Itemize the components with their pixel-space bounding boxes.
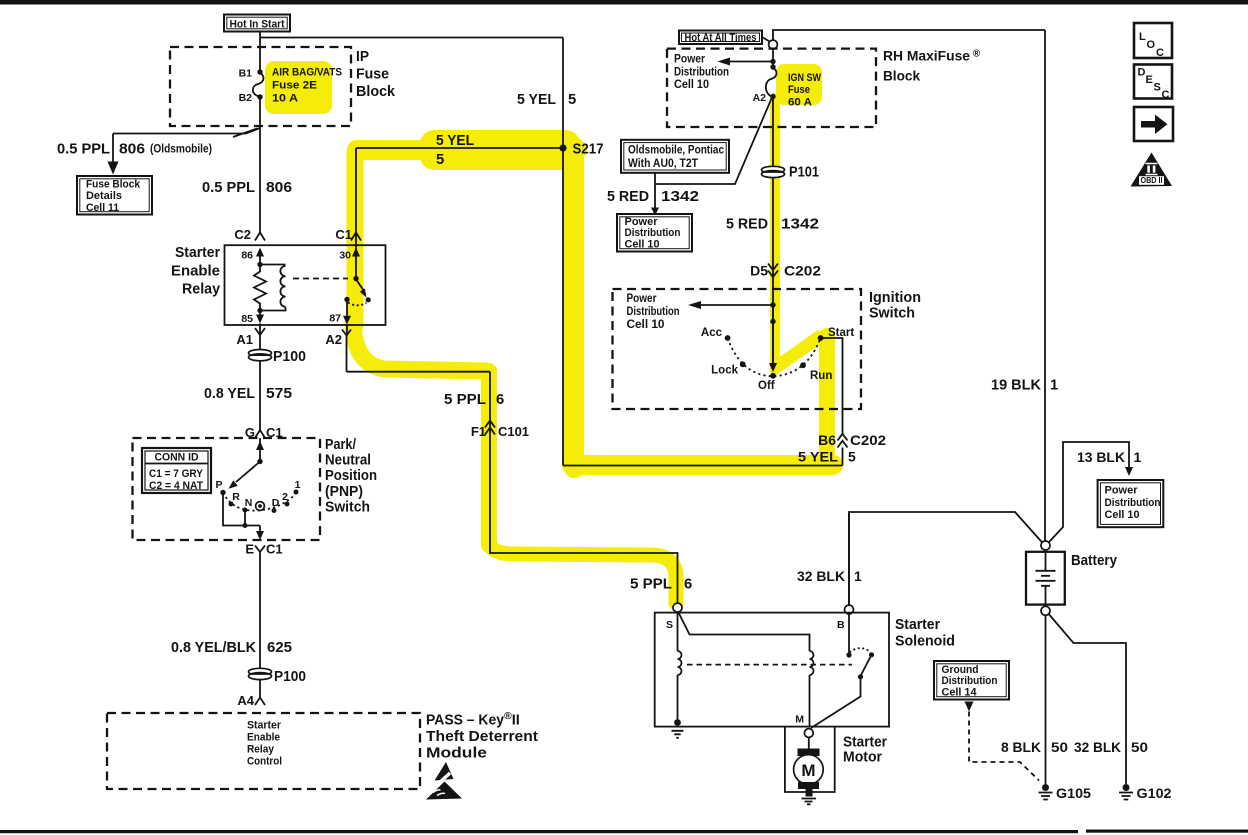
icon: DESC — [1134, 65, 1172, 102]
ESD sensitive device symbol — [423, 762, 463, 800]
svg-text:5: 5 — [436, 152, 444, 168]
callout box: CONN ID — [142, 448, 211, 493]
svg-text:806: 806 — [119, 142, 145, 158]
travel arc: relay contact — [348, 303, 367, 306]
icon: OBD II triangle — [1131, 153, 1173, 187]
svg-text:6: 6 — [684, 577, 692, 593]
svg-text:1: 1 — [1050, 378, 1058, 394]
wire: B stud into switch — [848, 614, 850, 653]
svg-text:0.5 PPL: 0.5 PPL — [57, 142, 110, 158]
svg-text:Theft Deterrent: Theft Deterrent — [426, 729, 538, 745]
svg-text:Block: Block — [356, 83, 396, 100]
wire: battery negative to G105 — [1045, 615, 1047, 784]
connector A1 — [236, 328, 265, 347]
svg-text:A4: A4 — [237, 693, 254, 708]
connector P100 — [249, 349, 307, 365]
svg-text:Block: Block — [883, 68, 920, 84]
connector A4 — [237, 693, 265, 708]
wire: tap to Fuse Block Details — [113, 128, 260, 137]
switch blade: PNP to P — [229, 462, 261, 489]
connector P100 (second) — [249, 668, 307, 685]
wire: A1 to G C1 — [259, 364, 261, 430]
svg-text:C: C — [1156, 47, 1164, 59]
wire: Hot In Start down to fuse B1 — [259, 32, 261, 73]
svg-text:S: S — [666, 619, 673, 631]
callout box: Power Distribution Cell 10 (second) — [617, 214, 692, 252]
svg-text:Park/: Park/ — [325, 436, 357, 453]
svg-text:P: P — [215, 479, 222, 491]
RH MaxiFuse Block dashed outline — [667, 49, 876, 127]
svg-text:A2: A2 — [325, 332, 342, 347]
wire: solenoid B to battery positive — [849, 512, 1042, 605]
svg-text:5 PPL: 5 PPL — [630, 577, 672, 593]
contact Start — [818, 327, 855, 341]
arrow: feed into Off contact — [769, 305, 777, 372]
motor armature M — [794, 755, 824, 785]
junction: switch pivot — [353, 276, 358, 281]
svg-text:Starter: Starter — [247, 720, 282, 732]
arrow: pin 86 up — [256, 248, 264, 265]
highlight: ignition feed wire down to Off — [770, 98, 780, 370]
ground: starter motor — [802, 788, 817, 804]
contact: blade rest — [366, 297, 371, 302]
svg-text:(Oldsmobile): (Oldsmobile) — [150, 142, 212, 156]
svg-text:32 BLK: 32 BLK — [797, 568, 845, 584]
svg-text:Relay: Relay — [247, 744, 275, 756]
wire: S to hold-in coil — [678, 612, 810, 652]
callout box: Power Distribution Cell 10 (battery) — [1098, 480, 1164, 527]
arrow: 5 RED drop into power dist — [651, 208, 659, 216]
highlight: jump to Start contact — [778, 337, 819, 366]
svg-text:R: R — [232, 491, 240, 503]
contact Acc — [701, 327, 731, 341]
svg-text:IP: IP — [356, 48, 369, 65]
svg-text:Distribution: Distribution — [625, 227, 681, 239]
svg-text:N: N — [245, 497, 253, 509]
wire: M stud to brush — [808, 737, 810, 749]
svg-text:1: 1 — [1134, 449, 1142, 465]
svg-text:Cell 10: Cell 10 — [625, 238, 660, 250]
wire: B6 to horizontal run — [842, 448, 844, 466]
svg-text:Ignition: Ignition — [869, 289, 921, 306]
svg-text:Switch: Switch — [325, 498, 370, 515]
svg-text:Starter: Starter — [175, 244, 220, 261]
ground: solenoid case — [672, 731, 684, 738]
wire: C1 stub into relay — [355, 148, 357, 251]
callout box: Ground Distribution Cell 14 — [934, 661, 1009, 700]
terminal: M stud — [804, 729, 813, 738]
arrow: into Fuse Block Details — [108, 162, 119, 175]
wire: Start output to B6 — [821, 338, 843, 434]
travel arc: ignition contacts — [728, 338, 821, 376]
svg-text:Control: Control — [247, 756, 282, 768]
switch blade: solenoid — [861, 655, 872, 675]
svg-text:Distribution: Distribution — [627, 304, 680, 318]
motor brush bottom — [798, 782, 819, 789]
svg-text:With AU0, T2T: With AU0, T2T — [628, 156, 699, 170]
linkage: solenoid dashed — [687, 664, 852, 666]
node label box: Hot At All Times — [679, 31, 762, 45]
svg-text:Position: Position — [325, 467, 377, 484]
svg-text:B1: B1 — [239, 68, 253, 80]
wire: box stub to stud — [762, 37, 770, 42]
junction: IGN SW fuse bottom — [770, 94, 775, 99]
svg-text:Enable: Enable — [247, 732, 280, 744]
svg-text:E: E — [245, 542, 254, 557]
junction: relay coil top — [257, 262, 262, 267]
svg-text:Fuse: Fuse — [356, 66, 389, 83]
svg-text:M: M — [795, 714, 804, 726]
wire: S to pull-in coil — [677, 612, 679, 651]
svg-text:Cell 10: Cell 10 — [1105, 509, 1140, 521]
svg-text:Neutral: Neutral — [325, 452, 371, 469]
battery BAT — [1026, 552, 1065, 607]
svg-text:1342: 1342 — [781, 217, 819, 233]
wire: 5 YEL horizontal run — [356, 147, 563, 149]
svg-text:A2: A2 — [753, 92, 767, 104]
highlight blob: 5 YEL 5 label — [420, 130, 580, 170]
connector C1 — [335, 227, 361, 242]
wire: P100 to A4 — [259, 680, 261, 697]
svg-text:Power: Power — [1105, 485, 1139, 497]
contact R — [229, 491, 241, 507]
contact Run — [800, 362, 832, 382]
contact 1 — [294, 479, 301, 495]
PNP switch dashed outline — [133, 438, 321, 540]
svg-text:D: D — [1138, 67, 1146, 79]
svg-text:C1 = 7 GRY: C1 = 7 GRY — [149, 468, 204, 480]
svg-text:30: 30 — [339, 250, 351, 262]
junction node S217 — [559, 144, 566, 151]
svg-text:B2: B2 — [239, 92, 253, 104]
svg-text:Distribution: Distribution — [942, 675, 998, 687]
svg-text:C: C — [1162, 89, 1170, 101]
svg-text:5 RED: 5 RED — [726, 217, 768, 233]
wire: E to P100 — [259, 552, 261, 668]
svg-text:OBD II: OBD II — [1141, 176, 1163, 185]
svg-text:(PNP): (PNP) — [325, 483, 363, 500]
svg-text:C1: C1 — [335, 227, 352, 242]
svg-text:5 RED: 5 RED — [607, 189, 649, 205]
svg-text:M: M — [801, 761, 815, 780]
svg-text:C1: C1 — [266, 542, 283, 557]
svg-text:Motor: Motor — [843, 749, 882, 766]
svg-text:L: L — [1139, 31, 1146, 43]
svg-text:Fuse Block: Fuse Block — [86, 179, 141, 191]
wire: N contact tap — [244, 510, 246, 526]
svg-text:S: S — [1154, 82, 1161, 94]
wire: P contact to output — [223, 493, 260, 526]
terminal: maxifuse stud — [769, 40, 778, 49]
svg-text:50: 50 — [1131, 739, 1148, 755]
svg-text:32 BLK: 32 BLK — [1074, 739, 1121, 755]
starter motor enclosure — [785, 727, 835, 792]
contact Lock — [711, 361, 745, 376]
highlight: run to solenoid S terminal — [490, 546, 676, 603]
svg-text:IGN SW: IGN SW — [788, 72, 821, 84]
svg-text:Fuse: Fuse — [788, 84, 810, 96]
svg-text:Starter: Starter — [895, 616, 940, 633]
svg-text:RH MaxiFuse ®: RH MaxiFuse ® — [883, 48, 981, 64]
inductor: hold-in coil — [810, 651, 814, 675]
wire: fuse output down to relay C2 — [259, 97, 261, 233]
svg-text:10 A: 10 A — [272, 93, 298, 105]
svg-text:Hot In Start: Hot In Start — [230, 19, 285, 31]
connector C2 — [234, 227, 265, 242]
node label box: Hot In Start — [224, 15, 290, 32]
svg-text:G102: G102 — [1137, 785, 1172, 801]
connector F1 C101 — [471, 421, 529, 440]
svg-text:P101: P101 — [789, 165, 819, 181]
arrow: PNP output down to E — [256, 526, 264, 541]
callout box: Fuse Block Details Cell 11 — [77, 176, 152, 215]
contact D — [272, 497, 280, 513]
svg-text:Cell 11: Cell 11 — [86, 202, 119, 214]
svg-text:C2: C2 — [234, 227, 251, 242]
ignition switch dashed outline — [613, 289, 862, 409]
contact: solenoid B — [846, 652, 851, 657]
highlight: A2 output curve — [353, 322, 486, 371]
svg-text:P100: P100 — [273, 349, 306, 365]
icon: LOC — [1134, 23, 1172, 59]
junction: coil ground — [674, 719, 681, 726]
svg-text:F1: F1 — [471, 424, 486, 439]
svg-text:85: 85 — [241, 313, 253, 325]
svg-text:0.5 PPL: 0.5 PPL — [202, 180, 255, 196]
svg-text:13 BLK: 13 BLK — [1077, 449, 1125, 465]
wire: 85 to A1 — [259, 324, 261, 351]
contact: pin 87 — [344, 297, 349, 302]
svg-text:E: E — [1146, 74, 1153, 86]
svg-text:5 PPL: 5 PPL — [444, 392, 486, 408]
svg-text:Hot At All Times: Hot At All Times — [685, 32, 757, 44]
connector D5 C202 — [750, 263, 821, 279]
terminal: battery positive — [1041, 541, 1050, 550]
contact OD ring — [256, 502, 265, 511]
svg-text:Enable: Enable — [171, 262, 220, 279]
svg-text:Relay: Relay — [182, 281, 221, 298]
svg-text:C202: C202 — [850, 432, 886, 448]
wire: 13 BLK 1 branch — [1049, 442, 1129, 542]
IP Fuse Block dashed outline — [170, 47, 351, 126]
connector G C1 — [245, 425, 283, 440]
arrow: feed to power distribution — [718, 58, 774, 66]
svg-text:1342: 1342 — [661, 189, 699, 205]
svg-text:19 BLK: 19 BLK — [991, 378, 1041, 394]
svg-text:0.8 YEL: 0.8 YEL — [204, 386, 255, 402]
svg-text:575: 575 — [266, 386, 292, 402]
arrow: 13 BLK into power dist — [1125, 467, 1133, 476]
arrow: pin 85 down — [256, 311, 264, 324]
connector P101 — [762, 165, 820, 181]
terminal: battery negative — [1041, 606, 1050, 615]
linkage: relay dashed — [293, 278, 348, 280]
svg-text:Power: Power — [627, 291, 657, 305]
svg-text:Cell 14: Cell 14 — [942, 687, 978, 699]
highlight: 5 YEL top run to relay C1 — [357, 140, 577, 160]
svg-text:5: 5 — [568, 92, 576, 108]
contact 2 — [282, 491, 289, 507]
svg-text:5 YEL: 5 YEL — [517, 92, 556, 108]
svg-text:Solenoid: Solenoid — [895, 633, 955, 650]
junction: IGN SW fuse top — [770, 64, 775, 69]
motor brush top — [798, 749, 820, 757]
junction: fuse B1 — [257, 69, 262, 74]
inductor: relay coil — [260, 265, 286, 311]
junction: relay coil bottom — [257, 308, 262, 313]
resistor: relay suppression — [254, 265, 266, 311]
junction: PNP pivot — [257, 459, 262, 464]
arrow: G input up — [256, 438, 264, 462]
wire: F1 drop and run to solenoid S — [490, 372, 678, 603]
svg-text:87: 87 — [329, 313, 341, 325]
svg-text:Cell 10: Cell 10 — [627, 317, 665, 331]
svg-text:Distribution: Distribution — [1105, 497, 1161, 509]
wire: 19 BLK 1 — [1044, 30, 1046, 541]
travel arc: PNP contacts — [223, 492, 297, 511]
highlight: relay 30-87 leg — [347, 152, 364, 325]
svg-text:CONN ID: CONN ID — [155, 452, 199, 464]
relay box: Starter Enable Relay — [225, 245, 386, 325]
svg-text:60 A: 60 A — [788, 96, 812, 108]
svg-text:AIR BAG/VATS: AIR BAG/VATS — [272, 67, 342, 79]
svg-text:625: 625 — [267, 640, 292, 656]
arrow: ground distribution reference — [965, 702, 974, 712]
highlight: S217 riser — [564, 147, 584, 468]
svg-text:806: 806 — [266, 180, 292, 196]
icon: forward arrow — [1134, 107, 1173, 141]
junction: fuse B2 — [257, 94, 262, 99]
highlight: 5 PPL drop through F1 C101 — [481, 371, 497, 545]
contact: blade top — [869, 652, 874, 657]
wire: fuse to ignition switch feed — [772, 97, 774, 365]
border: bottom rule right — [1086, 830, 1248, 833]
svg-text:0.8 YEL/BLK: 0.8 YEL/BLK — [171, 640, 256, 656]
svg-text:Cell 10: Cell 10 — [674, 77, 709, 91]
svg-text:G105: G105 — [1056, 785, 1091, 801]
junction: N tap — [243, 523, 248, 528]
fuse F: IGN SW 60 A — [766, 68, 777, 97]
highlight blob: AIR BAG/VATS fuse label — [265, 61, 332, 114]
svg-text:86: 86 — [241, 250, 253, 262]
svg-text:D5: D5 — [750, 263, 768, 279]
svg-text:A1: A1 — [236, 332, 253, 347]
svg-text:Switch: Switch — [869, 305, 915, 322]
svg-text:B6: B6 — [818, 432, 836, 448]
PASS-Key II module dashed outline — [107, 713, 420, 789]
leader: callout to fuse A2 — [655, 99, 772, 210]
switch blade: relay — [357, 280, 367, 298]
wire: stud to top run to 19 BLK — [773, 30, 1045, 41]
svg-text:O: O — [1147, 39, 1156, 51]
svg-text:1: 1 — [854, 568, 862, 584]
svg-text:6: 6 — [496, 392, 504, 408]
highlight: 5 YEL horizontal run to S217 riser — [572, 455, 833, 475]
contact P — [215, 479, 225, 495]
wire: battery negative to G102 — [1049, 614, 1126, 784]
border: top rule — [0, 0, 1248, 5]
connector E C1 — [245, 542, 282, 557]
wire: hold-in coil to M terminal — [809, 675, 811, 726]
contact N — [243, 497, 253, 513]
wire: contact to M terminal — [811, 677, 861, 728]
dashed leader: to G105 — [969, 712, 1039, 781]
svg-text:5: 5 — [848, 449, 856, 465]
wire: stud down to fuse — [772, 49, 774, 67]
connector A2 — [325, 330, 351, 348]
svg-text:50: 50 — [1051, 739, 1068, 755]
border: bottom rule left — [0, 830, 1078, 833]
svg-text:5 YEL: 5 YEL — [798, 449, 838, 465]
wire: top run to 5 YEL riser — [260, 37, 563, 39]
highlight blob: IGN SW fuse label — [776, 64, 822, 105]
terminal: solenoid B stud — [845, 605, 854, 614]
svg-text:Ground: Ground — [942, 664, 979, 676]
highlight: Start output down through B6 C202 — [819, 336, 835, 461]
svg-text:Run: Run — [810, 370, 832, 382]
svg-text:Off: Off — [758, 380, 775, 392]
svg-text:C202: C202 — [784, 263, 821, 279]
svg-text:C101: C101 — [498, 424, 529, 439]
junction: maxifuse feed — [770, 59, 775, 64]
inductor: pull-in coil — [678, 651, 682, 675]
wire: pull-in coil to case ground — [677, 675, 679, 721]
svg-text:Battery: Battery — [1071, 553, 1118, 569]
svg-text:Details: Details — [86, 190, 122, 202]
svg-text:1: 1 — [295, 479, 301, 491]
svg-text:Acc: Acc — [701, 327, 723, 339]
ground G102 — [1119, 784, 1172, 801]
svg-text:Power: Power — [625, 216, 659, 228]
svg-text:Oldsmobile, Pontiac: Oldsmobile, Pontiac — [628, 143, 724, 157]
wire: 5 YEL lower horizontal to B6 — [563, 465, 843, 467]
svg-text:P100: P100 — [274, 669, 306, 685]
svg-text:C2 = 4 NAT: C2 = 4 NAT — [149, 480, 203, 492]
arrow: pin 87 down — [343, 300, 351, 325]
svg-text:S217: S217 — [573, 142, 604, 158]
wire: 32 BLK 1 drop to B stud — [848, 512, 850, 605]
wire: drop to Fuse Block Details arrow — [112, 134, 114, 164]
junction: blade bottom — [858, 674, 863, 679]
travel arc: solenoid contact — [850, 648, 871, 652]
callout box: Oldsmobile Pontiac With AU0 T2T — [621, 140, 729, 173]
ground G105 — [1039, 784, 1092, 801]
connector B6 C202 — [818, 432, 886, 448]
junction: ignition feed lower — [770, 319, 775, 324]
contact Off — [758, 373, 776, 392]
svg-text:2: 2 — [282, 491, 288, 503]
wire: S217 down leg — [562, 148, 564, 466]
wire: 5 YEL riser top — [562, 38, 564, 149]
wire: 87/A2 leg down and right to F1 — [347, 325, 491, 372]
fuse F: AIR BAG/VATS Fuse 2E — [253, 73, 264, 97]
svg-text:8 BLK: 8 BLK — [1001, 739, 1041, 755]
starter solenoid box — [655, 613, 889, 727]
svg-text:5 YEL: 5 YEL — [436, 133, 474, 149]
terminal: solenoid S stud — [673, 603, 682, 612]
arrow: pin 30 up — [352, 248, 360, 279]
svg-text:Module: Module — [426, 746, 487, 762]
svg-text:D: D — [272, 497, 280, 509]
svg-text:Lock: Lock — [711, 365, 738, 377]
junction: ignition feed tap — [770, 302, 775, 307]
arrow: ignition feed to power distribution — [688, 301, 773, 309]
svg-text:B: B — [837, 619, 845, 631]
svg-text:Fuse 2E: Fuse 2E — [272, 80, 317, 92]
